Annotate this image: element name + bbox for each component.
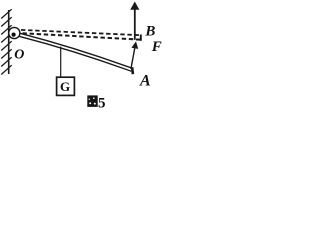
rod end cap at A — [131, 67, 134, 74]
wall hatching — [1, 9, 12, 74]
dashed line top (original rod position) — [21, 30, 141, 35]
svg-text:B: B — [144, 24, 155, 40]
svg-text:G: G — [60, 79, 70, 94]
string — [60, 47, 62, 78]
svg-text:O: O — [14, 47, 24, 62]
svg-text:5: 5 — [98, 96, 106, 112]
force arrow B (vertical) — [134, 9, 136, 40]
force arrow F — [131, 46, 135, 69]
caption glyph 图 (drawn as scanned dark square) — [87, 95, 97, 107]
dashed line bottom (original rod position) — [23, 33, 141, 40]
wall line — [8, 10, 10, 74]
svg-text:A: A — [139, 73, 151, 90]
dashed rod end cap — [140, 35, 142, 41]
rod OA (double line) — [19, 33, 132, 71]
pivot dot — [12, 33, 16, 37]
hinge circle O — [9, 27, 20, 38]
weight box G — [57, 77, 75, 95]
svg-text:F: F — [151, 39, 162, 55]
